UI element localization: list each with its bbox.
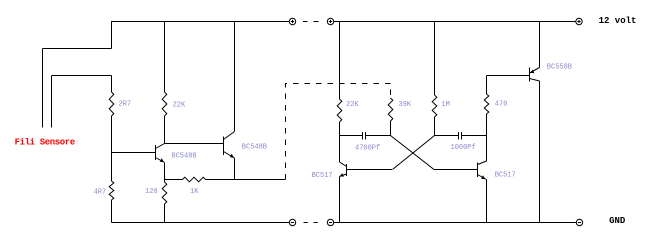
svg-text:1M: 1M bbox=[441, 101, 449, 109]
svg-text:22K: 22K bbox=[173, 102, 186, 110]
svg-text:22K: 22K bbox=[346, 101, 359, 109]
svg-text:120: 120 bbox=[145, 188, 158, 196]
svg-text:BC517: BC517 bbox=[495, 171, 516, 179]
svg-text:12 volt: 12 volt bbox=[599, 16, 637, 26]
svg-text:4R7: 4R7 bbox=[94, 189, 107, 197]
svg-text:2R7: 2R7 bbox=[119, 101, 132, 109]
svg-text:Fili Sensore: Fili Sensore bbox=[15, 138, 75, 148]
svg-text:GND: GND bbox=[609, 216, 626, 226]
svg-text:39K: 39K bbox=[399, 101, 412, 109]
svg-text:470: 470 bbox=[495, 101, 508, 109]
svg-text:BC558B: BC558B bbox=[547, 64, 572, 72]
svg-text:4700Pf: 4700Pf bbox=[355, 144, 380, 152]
svg-text:1000Pf: 1000Pf bbox=[451, 144, 476, 152]
svg-text:BC548B: BC548B bbox=[242, 144, 267, 152]
svg-text:BC548B: BC548B bbox=[171, 153, 196, 161]
svg-text:1K: 1K bbox=[190, 188, 199, 196]
svg-text:BC517: BC517 bbox=[312, 172, 333, 180]
